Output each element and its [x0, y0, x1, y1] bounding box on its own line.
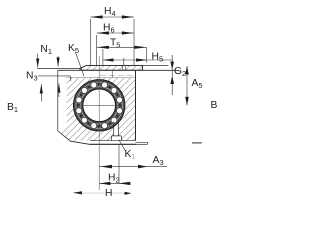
svg-text:A3: A3	[153, 155, 164, 167]
A5 dim vertical	[186, 66, 188, 105]
extension V_f	[146, 48, 148, 63]
top face line	[58, 69, 179, 71]
svg-text:K: K	[125, 149, 132, 160]
svg-text:H6: H6	[103, 23, 115, 35]
inner ring band shade	[82, 88, 117, 123]
H6 arrows	[97, 31, 109, 34]
centerlines	[80, 56, 119, 190]
bottom edge right ext	[136, 143, 148, 145]
svg-text:K5: K5	[68, 43, 79, 55]
N dim up line U1	[40, 84, 42, 102]
T5 dim line	[97, 46, 147, 48]
shoulder line A	[37, 67, 80, 69]
K slot sides	[113, 122, 115, 136]
G2 arrows	[170, 62, 174, 70]
right hatch edge	[135, 70, 137, 140]
svg-text:B: B	[211, 100, 218, 111]
svg-text:B1: B1	[7, 102, 18, 114]
svg-text:H5: H5	[152, 52, 164, 64]
N dim up line U2	[58, 84, 60, 98]
H2 dim line	[99, 182, 130, 184]
chamfer	[58, 131, 90, 144]
H arrows	[73, 191, 82, 194]
strip top line	[87, 65, 169, 67]
left edge	[57, 70, 59, 131]
svg-text:H: H	[105, 188, 112, 199]
dimension graphics	[38, 17, 202, 193]
H5 arrows	[103, 58, 114, 61]
faint mid line	[100, 74, 135, 76]
svg-text:H4: H4	[104, 6, 116, 18]
K wide hole outline	[112, 136, 122, 141]
bottom right corner	[147, 142, 149, 144]
bore circle stroke	[83, 89, 116, 122]
bottom step line	[136, 141, 148, 143]
bottom edge	[90, 143, 137, 145]
svg-text:N1: N1	[40, 44, 52, 56]
bearing annulus textured	[74, 80, 125, 131]
svg-text:N3: N3	[26, 71, 38, 83]
H4 dim line	[90, 16, 134, 18]
small vertical below top face	[111, 70, 113, 77]
extension V_d	[123, 58, 125, 66]
lube hole in strip	[122, 66, 124, 71]
strip right edge	[142, 66, 144, 71]
bearing seat bore (white circle punch)	[73, 80, 125, 132]
K leader	[119, 140, 126, 151]
extension V_c	[102, 49, 104, 66]
G2 dim vertical	[171, 55, 173, 95]
A5 arrows	[185, 66, 189, 75]
strip (lube plate) hatched	[80, 66, 143, 71]
horizontal centerline	[80, 104, 119, 106]
N line B corner	[69, 76, 71, 81]
bottom white band under hatch	[90, 141, 148, 144]
svg-text:A5: A5	[192, 78, 203, 90]
A3 arrows	[101, 165, 112, 169]
cage pockets	[77, 83, 121, 127]
svg-text:1: 1	[132, 155, 136, 161]
extension V_e	[133, 19, 135, 66]
H4 arrows	[90, 15, 102, 18]
K5 leader	[76, 53, 85, 77]
K hole slot white	[114, 124, 119, 137]
N line B	[38, 75, 70, 77]
outer circle stroke	[74, 80, 125, 131]
extension V_b	[96, 35, 98, 66]
arrowheads	[36, 15, 189, 195]
T5 arrows	[97, 46, 109, 49]
housing hatched body	[59, 78, 136, 141]
extension V_a	[89, 19, 91, 66]
strip bevel	[80, 66, 87, 69]
hatch bottom boundary	[90, 140, 136, 142]
svg-text:T5: T5	[110, 38, 120, 50]
balls	[76, 82, 123, 129]
A3 dim line	[99, 166, 167, 168]
N3 arrows	[36, 59, 39, 68]
vertical centerline	[98, 56, 100, 190]
svg-text:H2: H2	[108, 173, 120, 185]
ext below: K hole line	[118, 145, 120, 184]
H5 dim line	[103, 59, 172, 61]
N dim down line D1	[37, 54, 39, 68]
K hole wide white	[112, 136, 122, 142]
H dim line faint	[73, 192, 131, 194]
right floating dash	[192, 142, 202, 144]
H2 arrows	[100, 182, 111, 185]
outer ring band shade	[75, 81, 124, 130]
H6 dim line	[97, 32, 134, 34]
inner cavity line faint	[67, 77, 136, 79]
svg-text:G2: G2	[174, 66, 186, 78]
N dim down line D2	[57, 56, 59, 67]
raceway circles	[76, 82, 123, 129]
N1 arrows	[57, 58, 60, 67]
